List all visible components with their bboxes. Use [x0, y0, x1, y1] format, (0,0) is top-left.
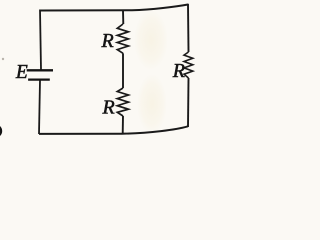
svg-text:R: R: [172, 60, 185, 82]
svg-text:E: E: [15, 62, 28, 83]
battery E bottom plate: [28, 78, 50, 80]
label R of R1: [101, 30, 114, 52]
wire middle branch between resistors: [122, 53, 124, 88]
wire top: [40, 5, 188, 11]
wire left upper (top corner to battery): [40, 10, 41, 70]
resistor R2 (middle bottom): [117, 88, 128, 116]
label R of R2: [102, 97, 115, 119]
wire right upper (top corner to R3): [187, 4, 190, 52]
small scan speck: [2, 58, 4, 60]
wire middle branch top stub: [122, 11, 124, 25]
figure label bullet (b), clipped at left edge: [0, 124, 2, 138]
battery E (EMF source) top plate: [27, 69, 53, 71]
wire left lower (battery to bottom corner): [39, 81, 40, 135]
scan tint blotch bottom middle: [137, 74, 167, 134]
wire bottom: [39, 126, 188, 134]
wire middle branch bottom stub: [122, 116, 124, 134]
svg-text:R: R: [101, 30, 114, 52]
resistor R1 (middle top): [117, 24, 128, 53]
scan tint blotch top right: [134, 10, 168, 70]
background paper: [0, 0, 205, 169]
resistor R3 (right branch): [184, 52, 193, 78]
label E: [15, 62, 28, 83]
svg-text:R: R: [102, 97, 115, 119]
wire right lower (R3 to bottom corner): [187, 78, 190, 127]
label R of R3: [172, 60, 185, 82]
